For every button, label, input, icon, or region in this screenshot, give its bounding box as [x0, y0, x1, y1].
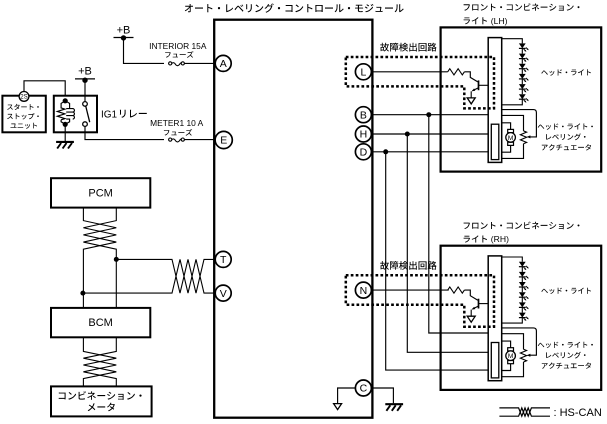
label フロント・コンビネーション・ (RH header line 1) [464, 222, 580, 230]
wire terminal C to chassis ground [371, 388, 393, 403]
ground (relay coil, chassis) [56, 142, 74, 149]
wire motor - (LH) [502, 145, 511, 152]
head-light LED 6 (RH) [519, 307, 529, 321]
wire terminal D to LH connector [371, 151, 488, 153]
label レベリング・ (actuator line 2, RH) [546, 352, 585, 359]
svg-text:D: D [360, 147, 368, 159]
wire pot bottom (LH) [502, 144, 524, 159]
relay switch blade [86, 106, 90, 122]
svg-text:M: M [508, 353, 514, 360]
wire connector to head-light LEDs (RH) [502, 257, 523, 323]
label ヘッド・ライト・ (actuator line 1, LH) [538, 123, 593, 129]
wire relay coil to ground [64, 124, 66, 141]
relay switch contact (bottom) [83, 122, 88, 127]
wire 2S to IG1 relay coil [24, 81, 65, 101]
svg-text:PCM: PCM [88, 188, 112, 200]
svg-text:(LH): (LH) [491, 16, 508, 26]
svg-text:METER1 10 A: METER1 10 A [150, 118, 203, 128]
wiper arrow (LH) [527, 135, 531, 138]
head-light LED 1 (LH) [519, 43, 529, 51]
relay coil (resistor element) [57, 101, 65, 125]
base resistor (RH) [448, 287, 465, 293]
head-light LED 2 (LH) [519, 48, 529, 62]
inner connector (actuator pins, LH) [491, 124, 499, 159]
wire connector to head-light LEDs (LH) [502, 39, 523, 105]
svg-text:BCM: BCM [88, 317, 112, 329]
leveling motor M (RH) [506, 348, 516, 364]
label フューズ (fuse 2) [164, 129, 192, 136]
svg-text:INTERIOR 15A: INTERIOR 15A [149, 41, 207, 51]
terminal L [355, 64, 371, 80]
svg-text:A: A [220, 58, 227, 70]
twisted pair wire PCM-BCM (line 2) [83, 208, 116, 308]
BCM box [51, 308, 150, 337]
label IG1リレー [101, 109, 147, 120]
svg-text:(RH): (RH) [491, 234, 509, 244]
terminal V [215, 285, 231, 301]
ground (transistor emitter, RH) [467, 316, 475, 322]
battery terminal bar +B2 [75, 78, 95, 83]
relay switch contact (top) [83, 102, 88, 107]
label コンビネーション・ (meter line 1) [59, 391, 142, 400]
svg-text:C: C [360, 383, 368, 395]
branch wire H to RH connector [407, 134, 488, 352]
wire motor + (LH) [502, 123, 511, 130]
IG1 relay box [54, 96, 97, 133]
relay coil (inductor element) [65, 101, 74, 125]
label ライト (RH) header line 2 [464, 234, 509, 244]
label ヘッド・ライト (head-light, RH) [541, 288, 591, 294]
PCM box [51, 178, 150, 207]
wire wiper feed (LH) [502, 110, 537, 137]
head-light LED 3 (LH) [519, 59, 529, 73]
ground (signal, open triangle) [334, 404, 342, 410]
terminal T [215, 251, 231, 267]
label ライト (LH) header line 2 [464, 16, 508, 26]
wire pot top (RH) [502, 334, 524, 350]
junction on wire H [405, 132, 410, 137]
wire terminal H to LH connector [371, 133, 488, 135]
label スタート・ (line 1) [7, 104, 39, 110]
leveling motor M (LH) [506, 129, 516, 145]
wire terminal N to RH detection circuit [371, 289, 448, 291]
wire terminal C to signal ground [338, 388, 356, 403]
branch wire D to RH connector [386, 152, 488, 370]
head-light LED 6 (LH) [519, 89, 529, 103]
terminal H [355, 126, 371, 142]
relay coil bottom junction [63, 122, 68, 127]
head-light LED 5 (RH) [519, 297, 529, 311]
label 故障検出回路 (fault detection, RH) [380, 261, 436, 270]
wire terminal L to LH detection circuit [371, 71, 447, 73]
HS-CAN legend twisted-pair symbol [499, 408, 550, 416]
svg-text:M: M [508, 135, 514, 142]
label アクチュエータ (actuator line 3, LH) [542, 144, 591, 150]
junction on wire D [383, 149, 388, 154]
wire +B2 to relay switch [84, 80, 86, 101]
connector in light (LH) [488, 38, 502, 163]
svg-text:H: H [360, 129, 368, 141]
connector in light (RH) [488, 256, 502, 381]
twisted pair wire to terminal T [116, 259, 215, 293]
terminal E [215, 131, 232, 148]
feedback resistor (RH) [520, 349, 526, 362]
wire motor + (RH) [502, 341, 511, 348]
wire relay switch to fuse METER1 [85, 127, 164, 140]
terminal C [355, 380, 371, 396]
wire wiper feed (RH) [502, 328, 537, 355]
base resistor (LH) [448, 69, 465, 75]
terminal A [215, 55, 231, 71]
terminal B [355, 107, 371, 123]
svg-text:+B: +B [78, 65, 92, 77]
svg-text:2S: 2S [20, 94, 27, 101]
wire resistor to transistor base (LH) [464, 72, 477, 82]
ground (transistor emitter, LH) [467, 98, 475, 104]
feedback resistor (LH) [520, 131, 526, 144]
terminal N [355, 282, 371, 298]
head-light LED 5 (LH) [519, 79, 529, 93]
label ユニット (line 3) [11, 123, 38, 129]
branch wire B to RH connector [429, 115, 488, 333]
terminal D [355, 144, 371, 160]
head-light LED 4 (RH) [519, 287, 529, 301]
head-light LED 1 (RH) [519, 262, 529, 270]
label アクチュエータ (actuator line 3, RH) [542, 362, 591, 368]
wire terminal B to LH connector [371, 114, 488, 116]
twisted pair wire BCM-meter (line 1) [83, 337, 116, 386]
relay coil top junction [63, 98, 68, 103]
label ストップ・ (line 2) [7, 113, 39, 120]
junction on wire B [426, 112, 431, 117]
fault detection circuit dashed outline (RH) [346, 275, 494, 326]
svg-text:: HS-CAN: : HS-CAN [554, 407, 602, 419]
svg-text:B: B [360, 109, 367, 121]
label フューズ (fuse) [165, 51, 193, 58]
connector 2S on start-stop unit [19, 92, 29, 102]
start-stop unit box [2, 96, 45, 133]
label メータ (meter line 2) [88, 403, 115, 412]
wire motor - (RH) [502, 364, 511, 371]
head-light LED 2 (RH) [519, 267, 529, 281]
twisted pair wire to terminal V [83, 259, 215, 293]
wire resistor to transistor base (RH) [464, 290, 477, 300]
label レベリング・ (actuator line 2, LH) [546, 133, 585, 140]
wire fuse INTERIOR to terminal A [184, 62, 214, 64]
label 故障検出回路 (fault detection, LH) [380, 43, 436, 52]
wire pot bottom (RH) [502, 362, 524, 377]
fuse METER1 10A [169, 138, 185, 142]
twisted pair wire PCM-BCM (line 1) [83, 208, 116, 308]
junction node on CAN-L wire [80, 291, 85, 296]
svg-text:N: N [360, 285, 368, 297]
head-light LED 4 (LH) [519, 69, 529, 83]
front combination light (LH) box [441, 27, 602, 171]
wire +B1 to fuse INTERIOR [124, 38, 165, 64]
wire pot top (LH) [502, 115, 524, 130]
transistor (LH) [471, 80, 488, 97]
front combination light (RH) box [441, 246, 602, 390]
inner connector (actuator pins, RH) [491, 343, 499, 378]
junction node on CAN-H wire [114, 257, 119, 262]
svg-text:L: L [360, 67, 366, 79]
ground (chassis, at module) [385, 404, 403, 411]
fault detection circuit dashed outline (LH) [346, 57, 494, 108]
transistor (RH) [471, 299, 488, 316]
label ヘッド・ライト・ (actuator line 1, RH) [538, 342, 593, 348]
svg-text:E: E [220, 135, 227, 147]
svg-text:IG1: IG1 [101, 109, 118, 120]
wire fuse METER1 to terminal E [184, 139, 214, 141]
label ヘッド・ライト (head-light, LH) [541, 69, 591, 75]
svg-text:+B: +B [117, 24, 131, 36]
battery terminal bar +B1 [114, 35, 134, 40]
module box: auto-leveling control module [214, 20, 372, 418]
twisted pair wire BCM-meter (line 2) [83, 337, 116, 386]
wiper arrow (RH) [527, 354, 531, 357]
label フロント・コンビネーション・ (LH header line 1) [464, 3, 580, 11]
svg-text:V: V [220, 288, 227, 300]
label: オート・レベリング・コントロール・モジュール (module title) [185, 3, 404, 12]
head-light LED 3 (RH) [519, 277, 529, 291]
combination meter box [51, 386, 152, 416]
fuse INTERIOR 15A [169, 62, 185, 66]
svg-text:T: T [220, 254, 227, 266]
